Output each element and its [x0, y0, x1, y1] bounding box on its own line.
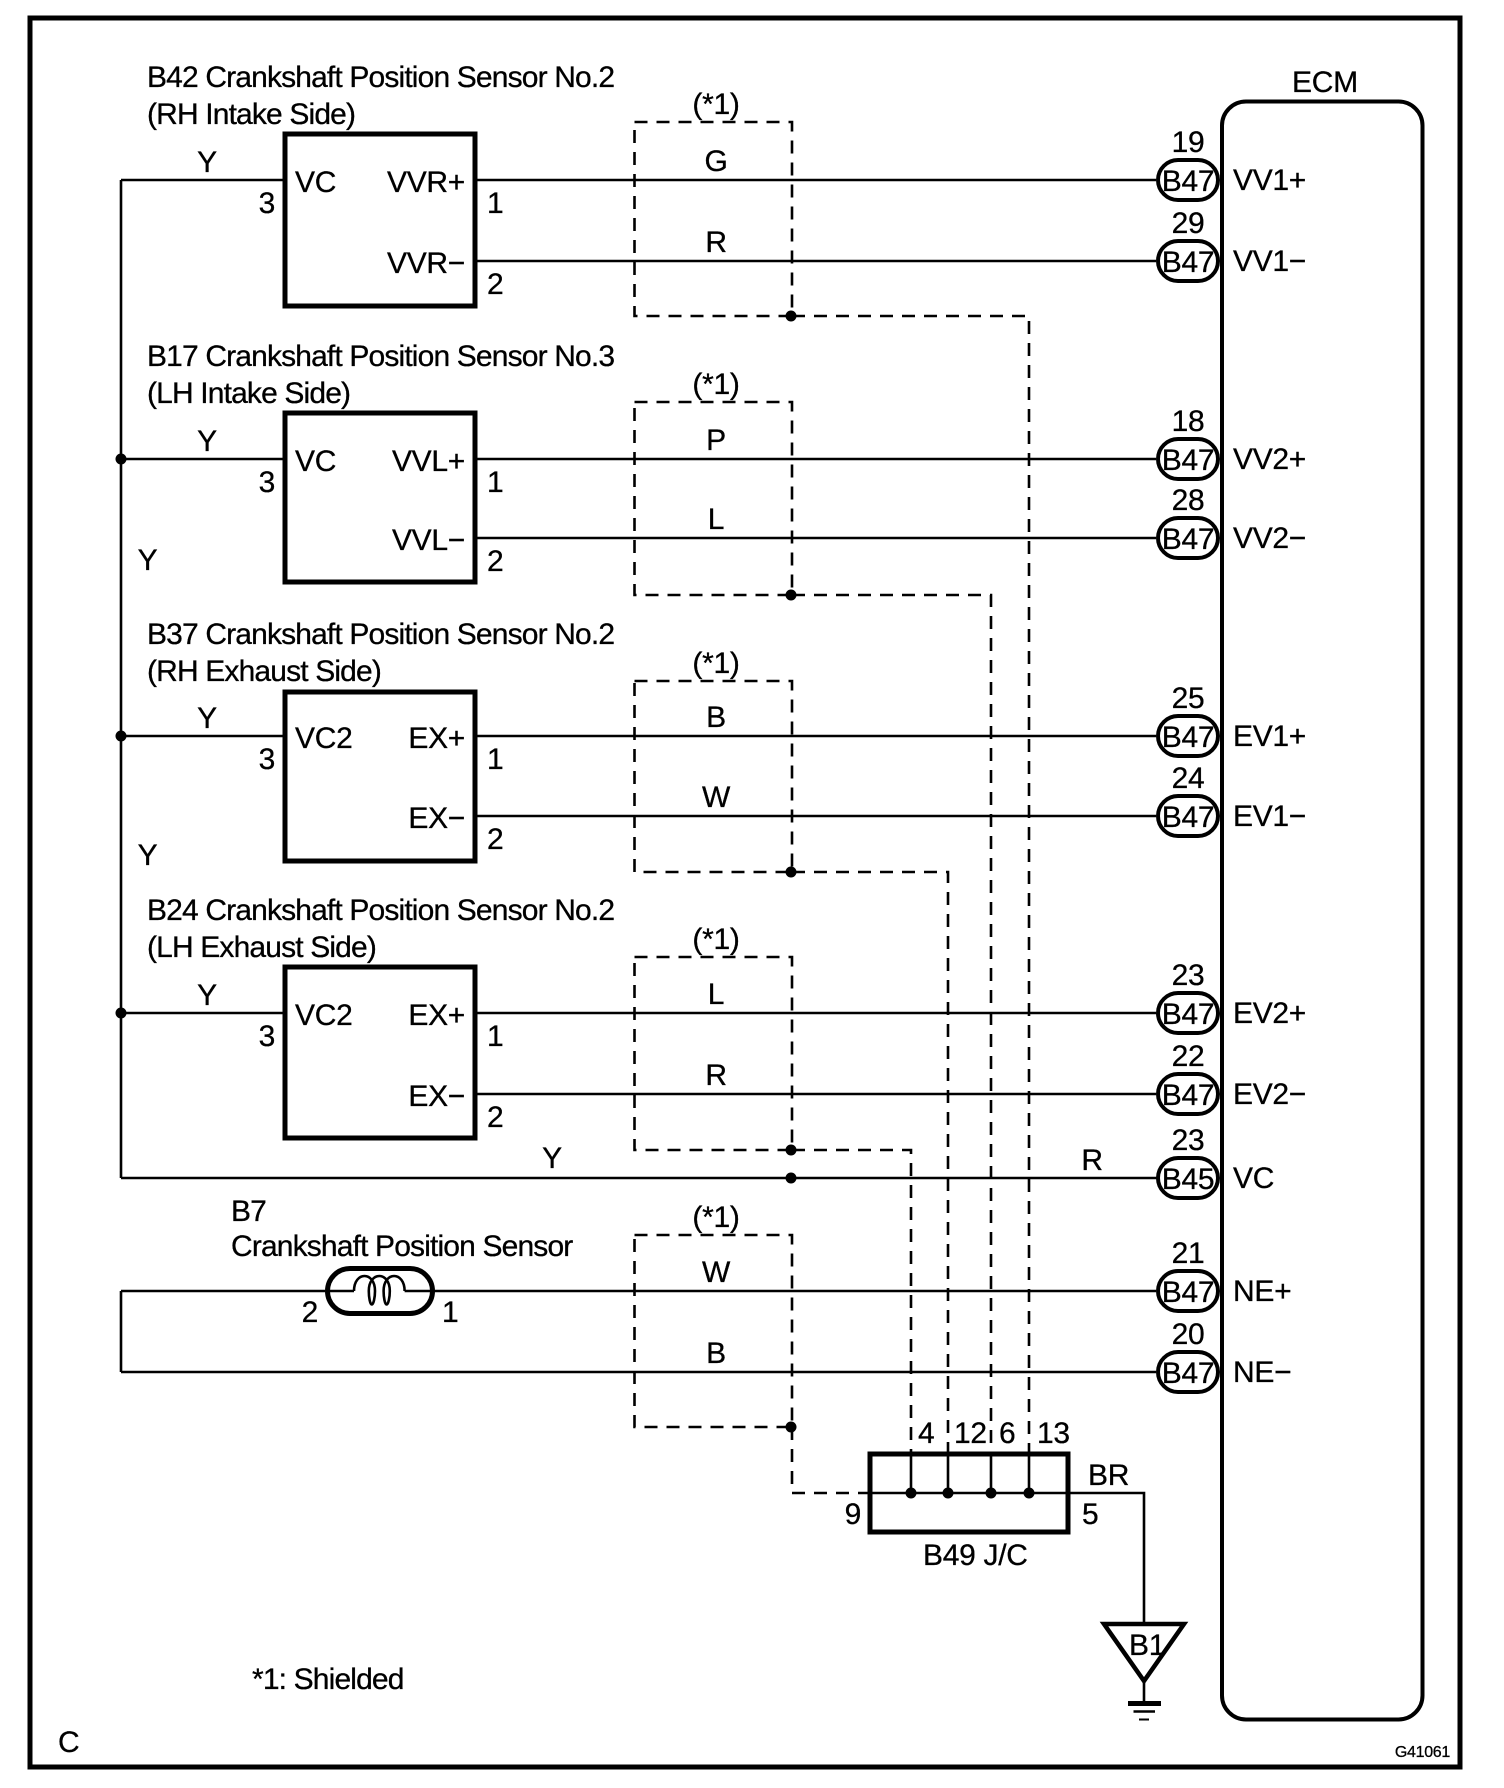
svg-text:1: 1 — [487, 743, 503, 776]
svg-text:B17 Crankshaft Position Sensor: B17 Crankshaft Position Sensor No.3 — [147, 340, 614, 373]
svg-text:EV2−: EV2− — [1233, 1078, 1306, 1111]
svg-text:(*1): (*1) — [692, 368, 739, 401]
svg-text:3: 3 — [259, 466, 275, 499]
svg-text:29: 29 — [1172, 207, 1205, 240]
svg-text:2: 2 — [487, 823, 503, 856]
svg-text:2: 2 — [487, 268, 503, 301]
svg-text:G: G — [704, 145, 727, 178]
svg-text:VVR−: VVR− — [387, 247, 465, 280]
svg-text:VV2−: VV2− — [1233, 522, 1306, 555]
svg-text:VVL−: VVL− — [392, 524, 465, 557]
svg-text:(LH Exhaust Side): (LH Exhaust Side) — [147, 931, 376, 964]
svg-text:B7: B7 — [231, 1195, 266, 1228]
svg-text:(*1): (*1) — [692, 88, 739, 121]
svg-text:Y: Y — [197, 702, 217, 735]
svg-text:B47: B47 — [1162, 444, 1214, 477]
svg-text:L: L — [708, 978, 724, 1011]
svg-text:VC2: VC2 — [295, 999, 352, 1032]
svg-text:EX+: EX+ — [408, 722, 465, 755]
svg-text:21: 21 — [1172, 1237, 1205, 1270]
svg-text:B47: B47 — [1162, 801, 1214, 834]
svg-text:C: C — [58, 1726, 79, 1759]
svg-text:R: R — [1081, 1144, 1102, 1177]
svg-text:B: B — [706, 1337, 726, 1370]
svg-text:VC: VC — [295, 445, 336, 478]
svg-text:13: 13 — [1037, 1417, 1070, 1450]
svg-text:(*1): (*1) — [692, 923, 739, 956]
svg-text:Y: Y — [542, 1142, 562, 1175]
svg-text:(LH Intake Side): (LH Intake Side) — [147, 377, 350, 410]
svg-text:B45: B45 — [1162, 1163, 1214, 1196]
svg-text:2: 2 — [302, 1296, 318, 1329]
svg-text:Y: Y — [197, 979, 217, 1012]
svg-text:25: 25 — [1172, 682, 1205, 715]
svg-text:3: 3 — [259, 743, 275, 776]
svg-text:Y: Y — [138, 839, 158, 872]
svg-text:20: 20 — [1172, 1318, 1205, 1351]
svg-text:EX−: EX− — [408, 802, 465, 835]
svg-text:3: 3 — [259, 1020, 275, 1053]
svg-text:EV1+: EV1+ — [1233, 720, 1306, 753]
svg-text:18: 18 — [1172, 405, 1205, 438]
svg-text:B37 Crankshaft Position Sensor: B37 Crankshaft Position Sensor No.2 — [147, 618, 614, 651]
svg-text:VV1−: VV1− — [1233, 245, 1306, 278]
svg-text:R: R — [705, 1059, 726, 1092]
svg-text:G41061: G41061 — [1395, 1744, 1451, 1761]
svg-text:B47: B47 — [1162, 246, 1214, 279]
svg-text:19: 19 — [1172, 126, 1205, 159]
svg-text:L: L — [708, 503, 724, 536]
svg-text:(*1): (*1) — [692, 647, 739, 680]
svg-text:Crankshaft Position Sensor: Crankshaft Position Sensor — [231, 1230, 573, 1263]
svg-text:B42 Crankshaft Position Sensor: B42 Crankshaft Position Sensor No.2 — [147, 61, 614, 94]
svg-text:1: 1 — [442, 1296, 458, 1329]
svg-text:Y: Y — [138, 544, 158, 577]
svg-text:W: W — [702, 1256, 731, 1289]
svg-text:(RH Exhaust Side): (RH Exhaust Side) — [147, 655, 381, 688]
svg-text:B47: B47 — [1162, 165, 1214, 198]
svg-text:BR: BR — [1088, 1459, 1129, 1492]
svg-text:2: 2 — [487, 1101, 503, 1134]
svg-text:1: 1 — [487, 187, 503, 220]
svg-text:5: 5 — [1082, 1498, 1098, 1531]
svg-text:2: 2 — [487, 545, 503, 578]
svg-text:NE+: NE+ — [1233, 1275, 1291, 1308]
svg-text:24: 24 — [1172, 762, 1205, 795]
svg-text:B: B — [706, 701, 726, 734]
svg-text:B47: B47 — [1162, 998, 1214, 1031]
svg-text:28: 28 — [1172, 484, 1205, 517]
svg-text:3: 3 — [259, 187, 275, 220]
svg-text:*1: Shielded: *1: Shielded — [252, 1663, 404, 1696]
svg-text:VC2: VC2 — [295, 722, 352, 755]
svg-text:1: 1 — [487, 1020, 503, 1053]
svg-text:VVR+: VVR+ — [387, 166, 465, 199]
svg-text:VV1+: VV1+ — [1233, 164, 1306, 197]
svg-text:B49 J/C: B49 J/C — [923, 1539, 1028, 1572]
svg-text:6: 6 — [999, 1417, 1015, 1450]
svg-text:12: 12 — [954, 1417, 987, 1450]
svg-text:23: 23 — [1172, 1124, 1205, 1157]
svg-text:B47: B47 — [1162, 523, 1214, 556]
svg-text:NE−: NE− — [1233, 1356, 1291, 1389]
svg-text:1: 1 — [487, 466, 503, 499]
svg-text:VV2+: VV2+ — [1233, 443, 1306, 476]
svg-text:Y: Y — [197, 425, 217, 458]
svg-text:VVL+: VVL+ — [392, 445, 465, 478]
svg-text:B24 Crankshaft Position Sensor: B24 Crankshaft Position Sensor No.2 — [147, 894, 614, 927]
svg-text:EV2+: EV2+ — [1233, 997, 1306, 1030]
svg-text:W: W — [702, 781, 731, 814]
svg-text:23: 23 — [1172, 959, 1205, 992]
svg-text:VC: VC — [1233, 1162, 1274, 1195]
svg-text:(*1): (*1) — [692, 1201, 739, 1234]
svg-text:(RH Intake Side): (RH Intake Side) — [147, 98, 355, 131]
svg-text:B47: B47 — [1162, 1079, 1214, 1112]
svg-text:B47: B47 — [1162, 1357, 1214, 1390]
svg-text:EV1−: EV1− — [1233, 800, 1306, 833]
svg-text:B47: B47 — [1162, 721, 1214, 754]
svg-text:EX+: EX+ — [408, 999, 465, 1032]
svg-text:VC: VC — [295, 166, 336, 199]
svg-text:4: 4 — [918, 1417, 934, 1450]
svg-text:Y: Y — [197, 146, 217, 179]
svg-text:R: R — [705, 226, 726, 259]
svg-text:B47: B47 — [1162, 1276, 1214, 1309]
svg-text:ECM: ECM — [1292, 66, 1358, 99]
svg-text:9: 9 — [845, 1498, 861, 1531]
svg-text:B1: B1 — [1129, 1629, 1165, 1662]
svg-text:22: 22 — [1172, 1040, 1205, 1073]
svg-text:P: P — [706, 424, 726, 457]
svg-text:EX−: EX− — [408, 1080, 465, 1113]
